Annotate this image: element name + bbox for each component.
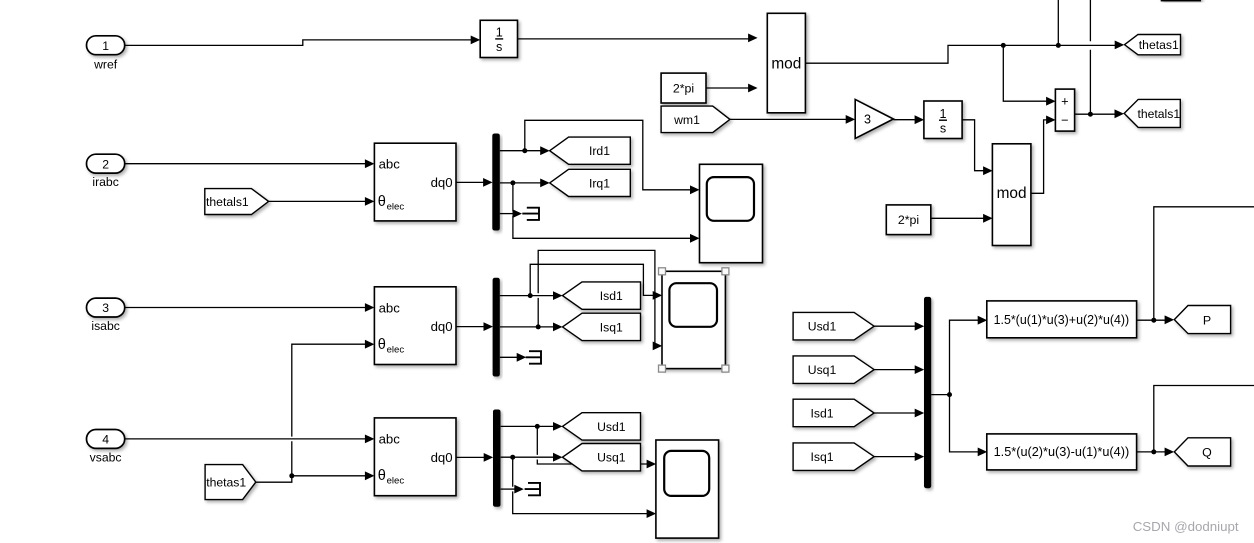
svg-text:irabc: irabc xyxy=(92,175,118,189)
wire demux1 out1 to Ird1 xyxy=(500,150,541,152)
svg-text:Isq1: Isq1 xyxy=(810,450,833,464)
svg-text:Q: Q xyxy=(1202,446,1212,460)
svg-text:elec: elec xyxy=(387,202,405,213)
svg-text:CSDN @dodniupt: CSDN @dodniupt xyxy=(1133,519,1239,534)
wire gain to integrator2 xyxy=(893,119,914,121)
svg-text:Isq1: Isq1 xyxy=(600,320,623,334)
mod block 1 xyxy=(767,13,805,113)
wire demux3 out2 to Usq1 xyxy=(501,456,554,458)
wire fcn2 to Q xyxy=(1137,451,1166,453)
wire port2 to abc xyxy=(125,163,366,165)
scope 2 selected xyxy=(662,271,725,368)
from tag thetals1 xyxy=(205,189,269,215)
wire vertical to top edge A xyxy=(1057,0,1059,45)
integrator U1 1/s xyxy=(480,20,517,57)
scope 1 xyxy=(700,164,763,262)
svg-text:mod: mod xyxy=(771,55,801,72)
terminator 2 xyxy=(526,351,542,364)
wire sum output to thetals1 xyxy=(1075,113,1116,115)
abc to dq0 block 1 xyxy=(374,143,456,221)
wire demux2 out1 to Isd1 xyxy=(500,295,554,297)
demux 1 xyxy=(492,134,500,231)
goto tag Usd1 xyxy=(563,413,641,440)
selection handles scope2 xyxy=(659,268,729,372)
partial block at top edge xyxy=(1162,0,1201,1)
wire dq0 block2 to demux2 xyxy=(456,326,485,328)
wire port4 to abc3 xyxy=(125,438,366,440)
integrator U2 1/s xyxy=(924,101,962,139)
wire demux3 out1 branch to scope3 in1 xyxy=(537,426,647,464)
wire thetas1 from-tag to theta3 xyxy=(256,476,366,482)
wire mux out to fcn blocks xyxy=(931,320,978,452)
wire fcn1 branch to top right xyxy=(1154,207,1254,320)
svg-text:Usq1: Usq1 xyxy=(808,363,837,377)
abc to dq0 block 2 xyxy=(374,287,456,365)
wire Isq1 from-tag to mux xyxy=(874,456,915,458)
wire demux3 out3 to terminator3 xyxy=(501,488,515,490)
constant 2*pi xyxy=(661,73,706,103)
wire Isd1 from-tag to mux xyxy=(874,412,915,414)
terminator 3 xyxy=(525,483,541,495)
from tag Isd1 xyxy=(793,399,874,427)
svg-text:wm1: wm1 xyxy=(673,113,700,127)
goto tag thetals1 xyxy=(1124,99,1180,127)
inport 4 vsabc xyxy=(87,430,125,449)
svg-text:+: + xyxy=(1061,94,1068,109)
inport 1 wref xyxy=(87,36,125,55)
from tag thetas1 xyxy=(205,465,256,500)
wire 2*pi2 to mod2 xyxy=(931,217,984,219)
svg-text:thetals1: thetals1 xyxy=(206,195,249,209)
wire thetals1 from-tag to theta1 xyxy=(269,200,366,202)
wire demux1 out1 branch to scope1 xyxy=(525,120,691,190)
wire mod2 to sum minus xyxy=(1031,120,1047,193)
wire integrator2 to mod2 xyxy=(962,120,983,171)
svg-text:Usq1: Usq1 xyxy=(597,451,626,465)
fcn block Q formula xyxy=(987,434,1137,470)
svg-text:Usd1: Usd1 xyxy=(597,420,626,434)
fcn block P formula xyxy=(987,301,1137,338)
svg-text:θ: θ xyxy=(378,194,386,210)
from tag wm1 xyxy=(661,106,730,133)
wire Usq1 from-tag to mux xyxy=(874,369,915,371)
wire Usd1 from-tag to mux xyxy=(874,325,915,327)
svg-text:dq0: dq0 xyxy=(431,319,453,334)
wire demux2 out2 to Isq1 xyxy=(500,326,554,328)
mod block 2 xyxy=(992,144,1031,246)
wire demux2 out2 branch to scope2 in2 xyxy=(538,250,655,346)
svg-text:Isd1: Isd1 xyxy=(810,406,833,420)
svg-text:dq0: dq0 xyxy=(431,450,453,465)
sum block xyxy=(1055,89,1074,131)
wire mod1 output to thetas1 xyxy=(805,45,1115,63)
svg-text:s: s xyxy=(496,40,502,54)
svg-text:2*pi: 2*pi xyxy=(898,213,919,227)
wire dq0 block1 to demux1 xyxy=(456,181,484,183)
from tag Usd1 xyxy=(793,312,874,340)
goto tag thetas1 xyxy=(1125,35,1181,55)
svg-text:abc: abc xyxy=(379,432,401,447)
demux 3 xyxy=(493,410,501,507)
wire vertical to top edge B xyxy=(1089,0,1091,114)
wire demux3 out1 to Usd1 xyxy=(501,425,554,427)
goto tag Irq1 xyxy=(550,169,631,196)
wire demux3 out2 branch to scope3 in2 xyxy=(513,457,648,513)
junction node dots xyxy=(289,43,1156,478)
mux xyxy=(924,297,931,488)
from tag Isq1 xyxy=(793,443,874,471)
svg-text:abc: abc xyxy=(379,300,401,315)
wire wm1 to gain xyxy=(730,118,846,120)
svg-text:θ: θ xyxy=(378,468,386,484)
wire 2*pi to mod1 xyxy=(706,87,749,89)
svg-text:elec: elec xyxy=(387,344,405,355)
abc to dq0 block 3 xyxy=(374,418,456,496)
svg-text:dq0: dq0 xyxy=(431,175,453,190)
svg-text:thetas1: thetas1 xyxy=(206,476,246,490)
wire theta riser to block2 xyxy=(292,344,366,476)
svg-text:1.5*(u(1)*u(3)+u(2)*u(4)): 1.5*(u(1)*u(3)+u(2)*u(4)) xyxy=(994,313,1130,327)
inport 2 irabc xyxy=(87,154,125,173)
wire demux1 out2 to Irq1 xyxy=(500,182,541,184)
arrowheads xyxy=(365,34,1174,519)
goto tag P xyxy=(1174,306,1230,334)
svg-text:wref: wref xyxy=(93,57,118,71)
wire demux2 out1 branch to scope2 in1 xyxy=(530,264,653,295)
svg-text:elec: elec xyxy=(387,476,405,487)
svg-text:thetas1: thetas1 xyxy=(1139,38,1179,52)
demux 2 xyxy=(493,278,500,377)
svg-text:−: − xyxy=(1061,113,1068,128)
svg-text:4: 4 xyxy=(102,433,109,447)
wire fcn1 to P xyxy=(1137,319,1166,321)
svg-text:1: 1 xyxy=(939,107,946,121)
svg-text:Ird1: Ird1 xyxy=(589,144,610,158)
svg-text:3: 3 xyxy=(102,301,109,315)
svg-text:P: P xyxy=(1203,313,1211,327)
goto tag Ird1 xyxy=(550,137,631,164)
wire integrator1 to mod1 xyxy=(518,38,749,40)
svg-text:s: s xyxy=(940,121,946,135)
wire dq0 block3 to demux3 xyxy=(456,456,485,458)
from tag Usq1 xyxy=(793,356,874,384)
svg-text:mod: mod xyxy=(997,185,1027,202)
svg-text:thetals1: thetals1 xyxy=(1137,107,1180,121)
goto tag Isq1 xyxy=(563,313,641,340)
svg-text:2: 2 xyxy=(102,157,109,171)
svg-text:θ: θ xyxy=(378,337,386,353)
svg-text:1: 1 xyxy=(102,39,109,53)
terminator 1 xyxy=(522,208,540,220)
wire port3 to abc2 xyxy=(125,307,366,309)
svg-text:Isd1: Isd1 xyxy=(600,289,623,303)
wire port1 to integrator xyxy=(125,40,471,46)
wire demux1 out2 branch to scope1 in2 xyxy=(513,183,691,238)
inport 3 isabc xyxy=(87,298,125,317)
svg-text:1.5*(u(2)*u(3)-u(1)*u(4)): 1.5*(u(2)*u(3)-u(1)*u(4)) xyxy=(994,445,1130,459)
svg-text:1: 1 xyxy=(496,26,503,40)
scope 3 xyxy=(656,440,719,538)
svg-text:Usd1: Usd1 xyxy=(808,320,837,334)
goto tag Usq1 xyxy=(563,444,641,471)
wire branch to sum plus xyxy=(1003,45,1046,101)
wire fcn2 branch to right edge xyxy=(1154,386,1254,452)
svg-text:3: 3 xyxy=(864,113,871,127)
svg-text:isabc: isabc xyxy=(91,319,119,333)
svg-text:Irq1: Irq1 xyxy=(589,176,610,190)
svg-text:2*pi: 2*pi xyxy=(673,82,694,96)
svg-text:abc: abc xyxy=(379,157,401,172)
wire demux1 out3 to terminator1 xyxy=(500,213,514,215)
gain 3 xyxy=(855,99,893,138)
constant 2*pi second xyxy=(886,205,931,235)
wire demux2 out3 to terminator2 xyxy=(500,356,518,358)
svg-text:vsabc: vsabc xyxy=(90,451,122,465)
goto tag Isd1 xyxy=(563,282,641,309)
goto tag Q xyxy=(1174,438,1230,466)
